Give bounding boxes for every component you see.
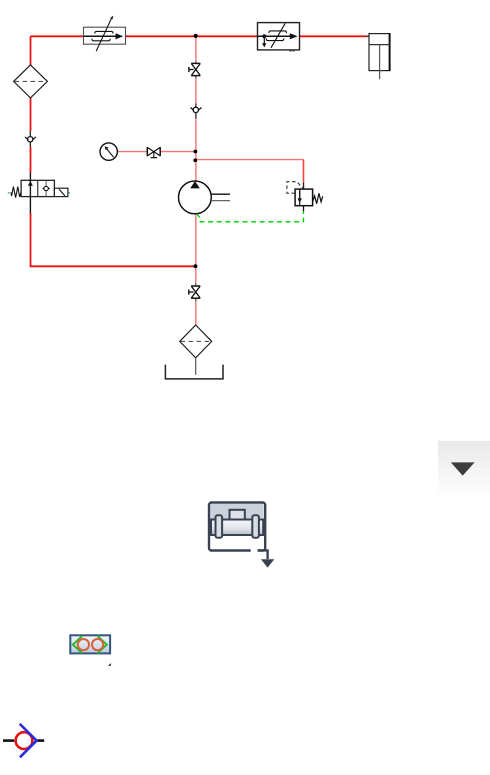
filter F1 (left, diamond) — [14, 65, 48, 98]
filter F2 (bottom, diamond) — [180, 325, 212, 358]
pump (center circle) — [179, 181, 231, 214]
wire: center vertical between check valve 2 and gauge junction — [195, 119, 197, 162]
node: junction dot gauge branch — [194, 150, 198, 154]
wire: top horizontal main line middle segment — [125, 35, 258, 37]
wire: left vertical below 2/2 valve + bottom horizontal to pump suction — [31, 213, 196, 266]
wire: center vertical from relief junction to pump inlet — [195, 160, 197, 182]
cylinder (top right, vertical) — [369, 33, 390, 79]
pressure relief valve RV — [287, 182, 323, 212]
green dashed drain line pump to relief valve — [197, 211, 304, 222]
flow control valve V1 (adjustable throttle, top left) — [84, 16, 126, 52]
check valve CV1 (left line) — [25, 131, 36, 147]
wire: top horizontal main line left segment — [31, 35, 85, 37]
node: junction dot bottom line — [194, 264, 198, 268]
ball valve BV2 (center line, lower) — [189, 283, 201, 301]
UI: dropdown button (right side) — [438, 441, 490, 494]
node: junction dot relief branch — [193, 158, 197, 162]
2/2 directional valve with solenoid and spring (left) — [8, 172, 70, 213]
shut-off valve SV0 (horizontal, on gauge line) — [147, 147, 160, 158]
wire: center vertical from top line to ball valve 1 — [195, 36, 197, 61]
tank (bottom reservoir) — [165, 358, 223, 379]
wire: gauge branch line — [117, 151, 196, 153]
wire: center vertical between ball valve 1 and check valve 2 — [195, 78, 197, 103]
wire: left vertical between filter and check valve — [30, 98, 32, 132]
pressure gauge — [100, 143, 117, 160]
wire: left vertical between check valve and 2/2 valve — [30, 147, 32, 172]
wire: center vertical ball valve 2 to filter 2 — [195, 301, 197, 325]
wire: left vertical main line (top piece to filter) — [30, 36, 32, 65]
2-way flow control valve V2 (top middle-right) — [258, 23, 300, 52]
ball valve BV1 (center line, upper) — [189, 61, 201, 78]
UI: pipe component icon with insert arrow (center) — [209, 503, 274, 568]
UI: small gauges icon (left) — [70, 635, 111, 666]
check valve CV2 (center line) — [191, 104, 202, 119]
wire: relief valve branch line — [196, 160, 304, 190]
UI: check valve cursor icon (bottom left) — [3, 724, 44, 758]
node: junction dot top line — [194, 34, 198, 38]
wire: top horizontal main line right segment — [299, 35, 369, 37]
wire: center vertical pump suction down to ball valve 2 — [195, 214, 197, 283]
